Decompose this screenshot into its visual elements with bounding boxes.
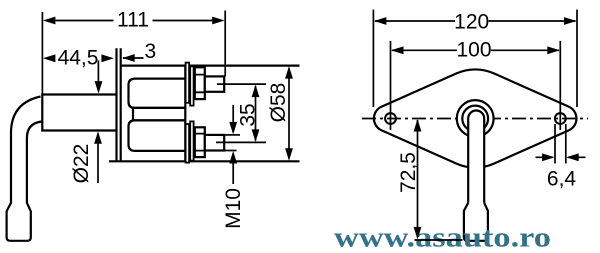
M10 upper leader line xyxy=(232,105,234,132)
arrowhead 120 right xyxy=(564,17,577,25)
svg-text:www.asauto.ro: www.asauto.ro xyxy=(334,222,551,253)
arrowhead 35 up xyxy=(252,85,260,98)
dimension line 72,5 xyxy=(417,120,419,237)
body top edge + Ø58 top extension line xyxy=(121,64,300,66)
Ø22 upper leader line xyxy=(97,61,99,91)
svg-text:6,4: 6,4 xyxy=(547,168,577,191)
arrowhead 72,5 down xyxy=(414,227,422,240)
mounting plate right face xyxy=(120,48,122,161)
arrowhead Ø58 down xyxy=(285,148,293,161)
horizontal centerline (dashed) xyxy=(362,118,588,120)
dimension line 3 xyxy=(123,57,144,59)
svg-text:Ø58: Ø58 xyxy=(267,83,290,123)
35 top extension line (upper stud axis) xyxy=(217,83,266,85)
upper terminal washer A xyxy=(186,63,190,103)
lower cylinder section xyxy=(129,120,186,150)
Ø22 lower leader line xyxy=(97,134,99,183)
arrowhead Ø22 up (onto shaft bottom) xyxy=(94,131,102,144)
arrowhead 111 left xyxy=(43,17,56,25)
dimension line 100 xyxy=(392,49,559,51)
arrowhead 100 right xyxy=(547,46,560,54)
arrowhead 6,4 right xyxy=(566,153,579,161)
upper terminal washer B xyxy=(190,66,193,105)
switch body middle circle xyxy=(462,106,488,132)
svg-text:100: 100 xyxy=(456,39,491,62)
lower terminal washer A xyxy=(186,124,190,163)
upper terminal stud M10 xyxy=(205,76,224,91)
M10 bottom extension line xyxy=(222,150,237,152)
mounting plate left face xyxy=(115,48,117,161)
lever grip (side view) xyxy=(7,203,31,241)
6,4 left arrow leader xyxy=(536,156,554,158)
svg-text:35: 35 xyxy=(237,103,260,126)
35 bottom extension line (lower stud axis) xyxy=(216,141,266,143)
upper cylinder section xyxy=(129,79,186,108)
arrowhead Ø22 down (onto shaft top) xyxy=(95,81,103,94)
dimension line 120 xyxy=(375,20,576,22)
lower terminal hex nut xyxy=(195,127,205,157)
6,4 right arrow leader xyxy=(568,156,586,158)
lower terminal washer B xyxy=(190,121,193,160)
dimension line 35 xyxy=(255,86,257,141)
mounting hole right Ø6,4 xyxy=(555,113,566,124)
extension line 100 right (through hole) xyxy=(559,41,561,130)
svg-text:M10: M10 xyxy=(222,188,245,229)
shaft cylinder Ø22 (side view) xyxy=(42,95,115,131)
arrowhead Ø58 up xyxy=(285,66,293,79)
6,4 right extension line xyxy=(565,124,567,164)
dimension line 111 xyxy=(54,20,213,22)
svg-text:Ø22: Ø22 xyxy=(70,144,93,184)
6,4 left extension line xyxy=(554,124,556,164)
extension line 120 left xyxy=(372,10,374,107)
svg-text:3: 3 xyxy=(144,40,156,63)
extension line 100 left (through hole) xyxy=(390,41,392,130)
lever rod outer contour (side view) xyxy=(11,97,41,204)
dimension line Ø58 xyxy=(288,69,290,159)
arrowhead 72,5 up xyxy=(414,119,422,132)
extension line 120 right xyxy=(576,10,578,107)
svg-text:72,5: 72,5 xyxy=(397,152,420,193)
upper terminal hex nut xyxy=(195,67,205,99)
svg-text:120: 120 xyxy=(454,11,489,34)
mounting hole left Ø6,4 xyxy=(385,113,396,124)
72,5 bottom extension line (grip bottom) xyxy=(415,239,463,241)
lever grip (front view) xyxy=(464,203,488,241)
arrowhead 35 down xyxy=(252,129,260,142)
svg-text:111: 111 xyxy=(117,8,149,31)
lever rod (front view) xyxy=(468,111,484,204)
M10 lower leader line xyxy=(232,154,234,184)
arrowhead M10 down xyxy=(229,122,237,135)
arrowhead 3 xyxy=(122,54,135,62)
arrowhead 120 left xyxy=(374,17,387,25)
arrowhead 44,5 left xyxy=(43,54,56,62)
arrowhead 100 left xyxy=(391,46,404,54)
mounting flange diamond plate xyxy=(374,69,577,167)
lower terminal stud M10 xyxy=(205,135,224,151)
body bottom edge + Ø58 bottom extension line xyxy=(109,160,300,162)
M10 top extension line xyxy=(224,134,240,136)
switch body outer circle xyxy=(457,100,494,137)
extension line right (stud end face) xyxy=(224,11,226,77)
arrowhead 111 right xyxy=(212,17,225,25)
lever rod inner contour (side view) xyxy=(27,122,42,204)
svg-text:44,5: 44,5 xyxy=(58,47,99,70)
arrowhead 6,4 left xyxy=(542,153,555,161)
body right face xyxy=(184,66,186,162)
upper hex nut facet lines xyxy=(195,75,205,93)
extension line left (shaft end face) xyxy=(41,12,43,94)
arrowhead 44,5 right xyxy=(101,54,114,62)
waist recess between cylinders xyxy=(133,108,185,121)
arrowhead M10 up xyxy=(229,151,237,164)
lower hex nut facet lines xyxy=(195,134,205,151)
